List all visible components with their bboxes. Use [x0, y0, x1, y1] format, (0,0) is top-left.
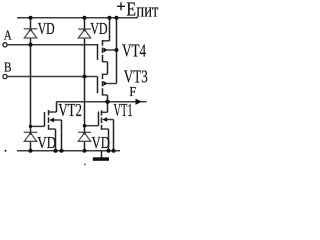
svg-text:A: A — [4, 29, 13, 44]
svg-text:VT4: VT4 — [122, 40, 146, 60]
svg-text:VT3: VT3 — [124, 67, 148, 87]
svg-text:F: F — [129, 85, 136, 100]
svg-text:VT2: VT2 — [58, 100, 82, 120]
svg-text:E: E — [126, 0, 136, 20]
svg-text:VD: VD — [38, 19, 55, 38]
svg-text:VD: VD — [37, 133, 56, 152]
svg-text:пит: пит — [136, 0, 159, 21]
svg-text:VD: VD — [90, 19, 107, 38]
svg-text:B: B — [4, 61, 12, 76]
svg-text:VD: VD — [92, 133, 111, 152]
svg-text:VT1: VT1 — [114, 100, 133, 120]
